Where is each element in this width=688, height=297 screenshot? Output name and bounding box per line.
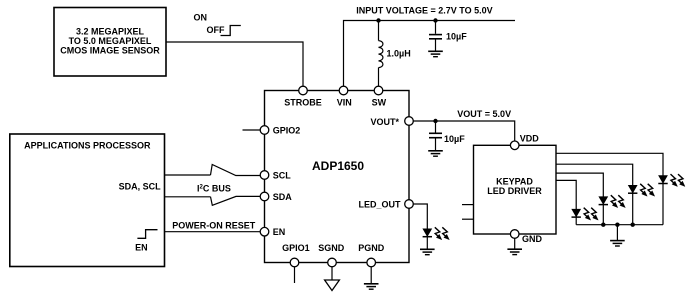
svg-text:10µF: 10µF — [444, 134, 465, 144]
svg-text:PGND: PGND — [358, 243, 385, 253]
svg-text:APPLICATIONS PROCESSOR: APPLICATIONS PROCESSOR — [24, 141, 151, 151]
svg-text:OFF: OFF — [207, 25, 225, 35]
wire: D3 to rail — [602, 204, 604, 225]
svg-text:KEYPAD: KEYPAD — [496, 176, 533, 186]
ADP1650 U1 box — [265, 91, 410, 263]
pin EN — [260, 227, 269, 236]
svg-text:LED DRIVER: LED DRIVER — [487, 186, 542, 196]
pin GND — [510, 230, 519, 239]
wire: SGND to signal ground — [331, 267, 333, 280]
wire: SCL — [165, 174, 211, 176]
svg-text:SW: SW — [372, 98, 387, 108]
wire: input voltage rail — [344, 21, 516, 87]
svg-text:ADP1650: ADP1650 — [312, 159, 364, 173]
pin VDD — [510, 141, 519, 150]
inductor L1 1.0uH — [379, 21, 383, 87]
LED D4 — [628, 185, 637, 193]
wire: sensor to STROBE — [166, 42, 303, 86]
wire: LED bottom rail — [576, 224, 663, 226]
ground under C1 — [428, 51, 443, 56]
pin SGND — [328, 258, 337, 267]
svg-text:GND: GND — [522, 234, 543, 244]
svg-text:INPUT VOLTAGE = 2.7V TO 5.0V: INPUT VOLTAGE = 2.7V TO 5.0V — [356, 6, 492, 16]
svg-text:EN: EN — [273, 227, 286, 237]
wire: EN — [165, 231, 261, 233]
wire: SDA — [165, 196, 211, 198]
svg-text:LED_OUT: LED_OUT — [358, 200, 401, 210]
wire: rail to ground — [616, 225, 618, 241]
svg-text:VDD: VDD — [520, 133, 540, 143]
node: VOUT-capacitor junction — [433, 119, 437, 123]
wire: VOUT to VDD — [413, 121, 514, 141]
LED D5 — [658, 176, 667, 184]
wire: LED_OUT branch — [413, 204, 427, 236]
pin VIN — [339, 86, 348, 95]
APPLICATIONS PROCESSOR box — [10, 134, 165, 267]
wire: keypad LED string 2 — [556, 173, 603, 204]
svg-text:CMOS IMAGE SENSOR: CMOS IMAGE SENSOR — [60, 46, 160, 56]
svg-text:SDA, SCL: SDA, SCL — [119, 182, 162, 192]
ON/OFF step waveform — [221, 26, 241, 36]
svg-text:I2C BUS: I2C BUS — [197, 183, 231, 193]
svg-text:VOUT = 5.0V: VOUT = 5.0V — [457, 109, 511, 119]
EN step waveform — [137, 230, 157, 239]
pin VOUT* — [405, 117, 414, 126]
pin SCL — [260, 171, 269, 180]
ground under LED rail — [610, 241, 625, 246]
pin GPIO2 — [243, 129, 261, 131]
wire: keypad LED string 3 — [556, 164, 633, 193]
wire: D5 to rail — [662, 183, 664, 225]
keypad input stub 1 — [462, 204, 474, 206]
pin LED_OUT — [405, 200, 414, 209]
svg-text:10µF: 10µF — [446, 31, 467, 41]
pin SDA — [260, 192, 269, 201]
svg-text:SDA: SDA — [273, 192, 293, 202]
svg-text:STROBE: STROBE — [284, 98, 322, 108]
pin PGND — [367, 258, 376, 267]
signal ground triangle — [325, 280, 340, 291]
bus arrow bottom outline — [211, 196, 261, 205]
capacitor C2 10uF (output) — [429, 121, 442, 151]
capacitor C1 10uF (input) — [429, 21, 442, 52]
svg-text:GPIO2: GPIO2 — [273, 126, 301, 136]
pin SW — [374, 86, 383, 95]
svg-text:SGND: SGND — [318, 243, 345, 253]
ground under D1 — [420, 249, 435, 254]
svg-text:3.2 MEGAPIXEL: 3.2 MEGAPIXEL — [76, 27, 145, 37]
LED D1 (flash LED) — [423, 229, 432, 237]
node: rail-inductor junction — [376, 18, 380, 22]
ground under PGND — [364, 284, 379, 289]
wire: D4 to rail — [632, 193, 634, 225]
node: rail-D3 — [601, 223, 605, 227]
svg-text:ON: ON — [194, 12, 208, 22]
svg-text:POWER-ON RESET: POWER-ON RESET — [172, 220, 256, 230]
svg-text:VOUT*: VOUT* — [370, 117, 399, 127]
ground under GND — [507, 249, 522, 254]
pin GPIO1 — [290, 258, 299, 267]
svg-text:GPIO1: GPIO1 — [282, 243, 310, 253]
svg-text:1.0µH: 1.0µH — [387, 49, 411, 59]
wire: GPIO1 stub — [294, 267, 296, 283]
LED D2 — [572, 209, 581, 217]
svg-text:TO 5.0 MEGAPIXEL: TO 5.0 MEGAPIXEL — [69, 36, 152, 46]
wire: D2 to rail — [575, 217, 577, 225]
wire: keypad LED string 1 — [556, 180, 576, 216]
node: rail-capacitor junction — [433, 18, 437, 22]
KEYPAD LED DRIVER box — [474, 145, 557, 234]
wire: PGND to ground — [370, 267, 372, 284]
wire: GND to ground — [514, 238, 516, 249]
LED D3 — [599, 197, 608, 205]
svg-text:VIN: VIN — [337, 98, 352, 108]
wire: keypad LED string 4 — [556, 153, 663, 183]
node: rail-D4 — [631, 223, 635, 227]
wire: D1 to ground — [426, 236, 428, 249]
svg-text:EN: EN — [135, 242, 148, 252]
node: rail-ground — [615, 223, 619, 227]
keypad input stub 2 — [462, 218, 474, 220]
CMOS image sensor block — [54, 8, 166, 77]
bus arrow top outline — [211, 165, 261, 176]
pin STROBE — [299, 86, 308, 95]
svg-text:SCL: SCL — [273, 170, 292, 180]
ground under C2 — [428, 151, 443, 156]
